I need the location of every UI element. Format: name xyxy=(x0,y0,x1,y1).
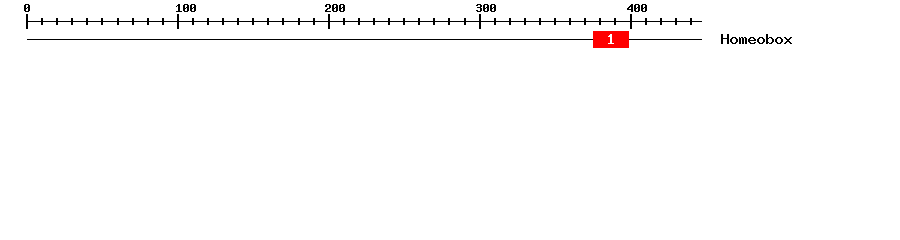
ruler minor ticks (every 10 aa) xyxy=(41,18,692,25)
ruler label 200 xyxy=(325,4,345,12)
protein sequence backbone line xyxy=(27,39,702,40)
ruler label 300 xyxy=(476,4,496,12)
ruler major tick 0 xyxy=(26,14,28,29)
ruler label 100 xyxy=(176,4,196,12)
ruler major tick 200 xyxy=(328,14,330,29)
Homeobox domain box (region 1) xyxy=(593,31,629,48)
ruler label 400 xyxy=(627,4,647,12)
ruler major tick 400 xyxy=(630,14,632,29)
ruler axis line xyxy=(27,21,702,22)
domain name label Homeobox xyxy=(721,34,792,44)
ruler major tick 100 xyxy=(177,14,179,29)
ruler major tick 300 xyxy=(479,14,481,29)
domain number 1 xyxy=(608,34,614,44)
ruler label 0 xyxy=(24,4,30,12)
